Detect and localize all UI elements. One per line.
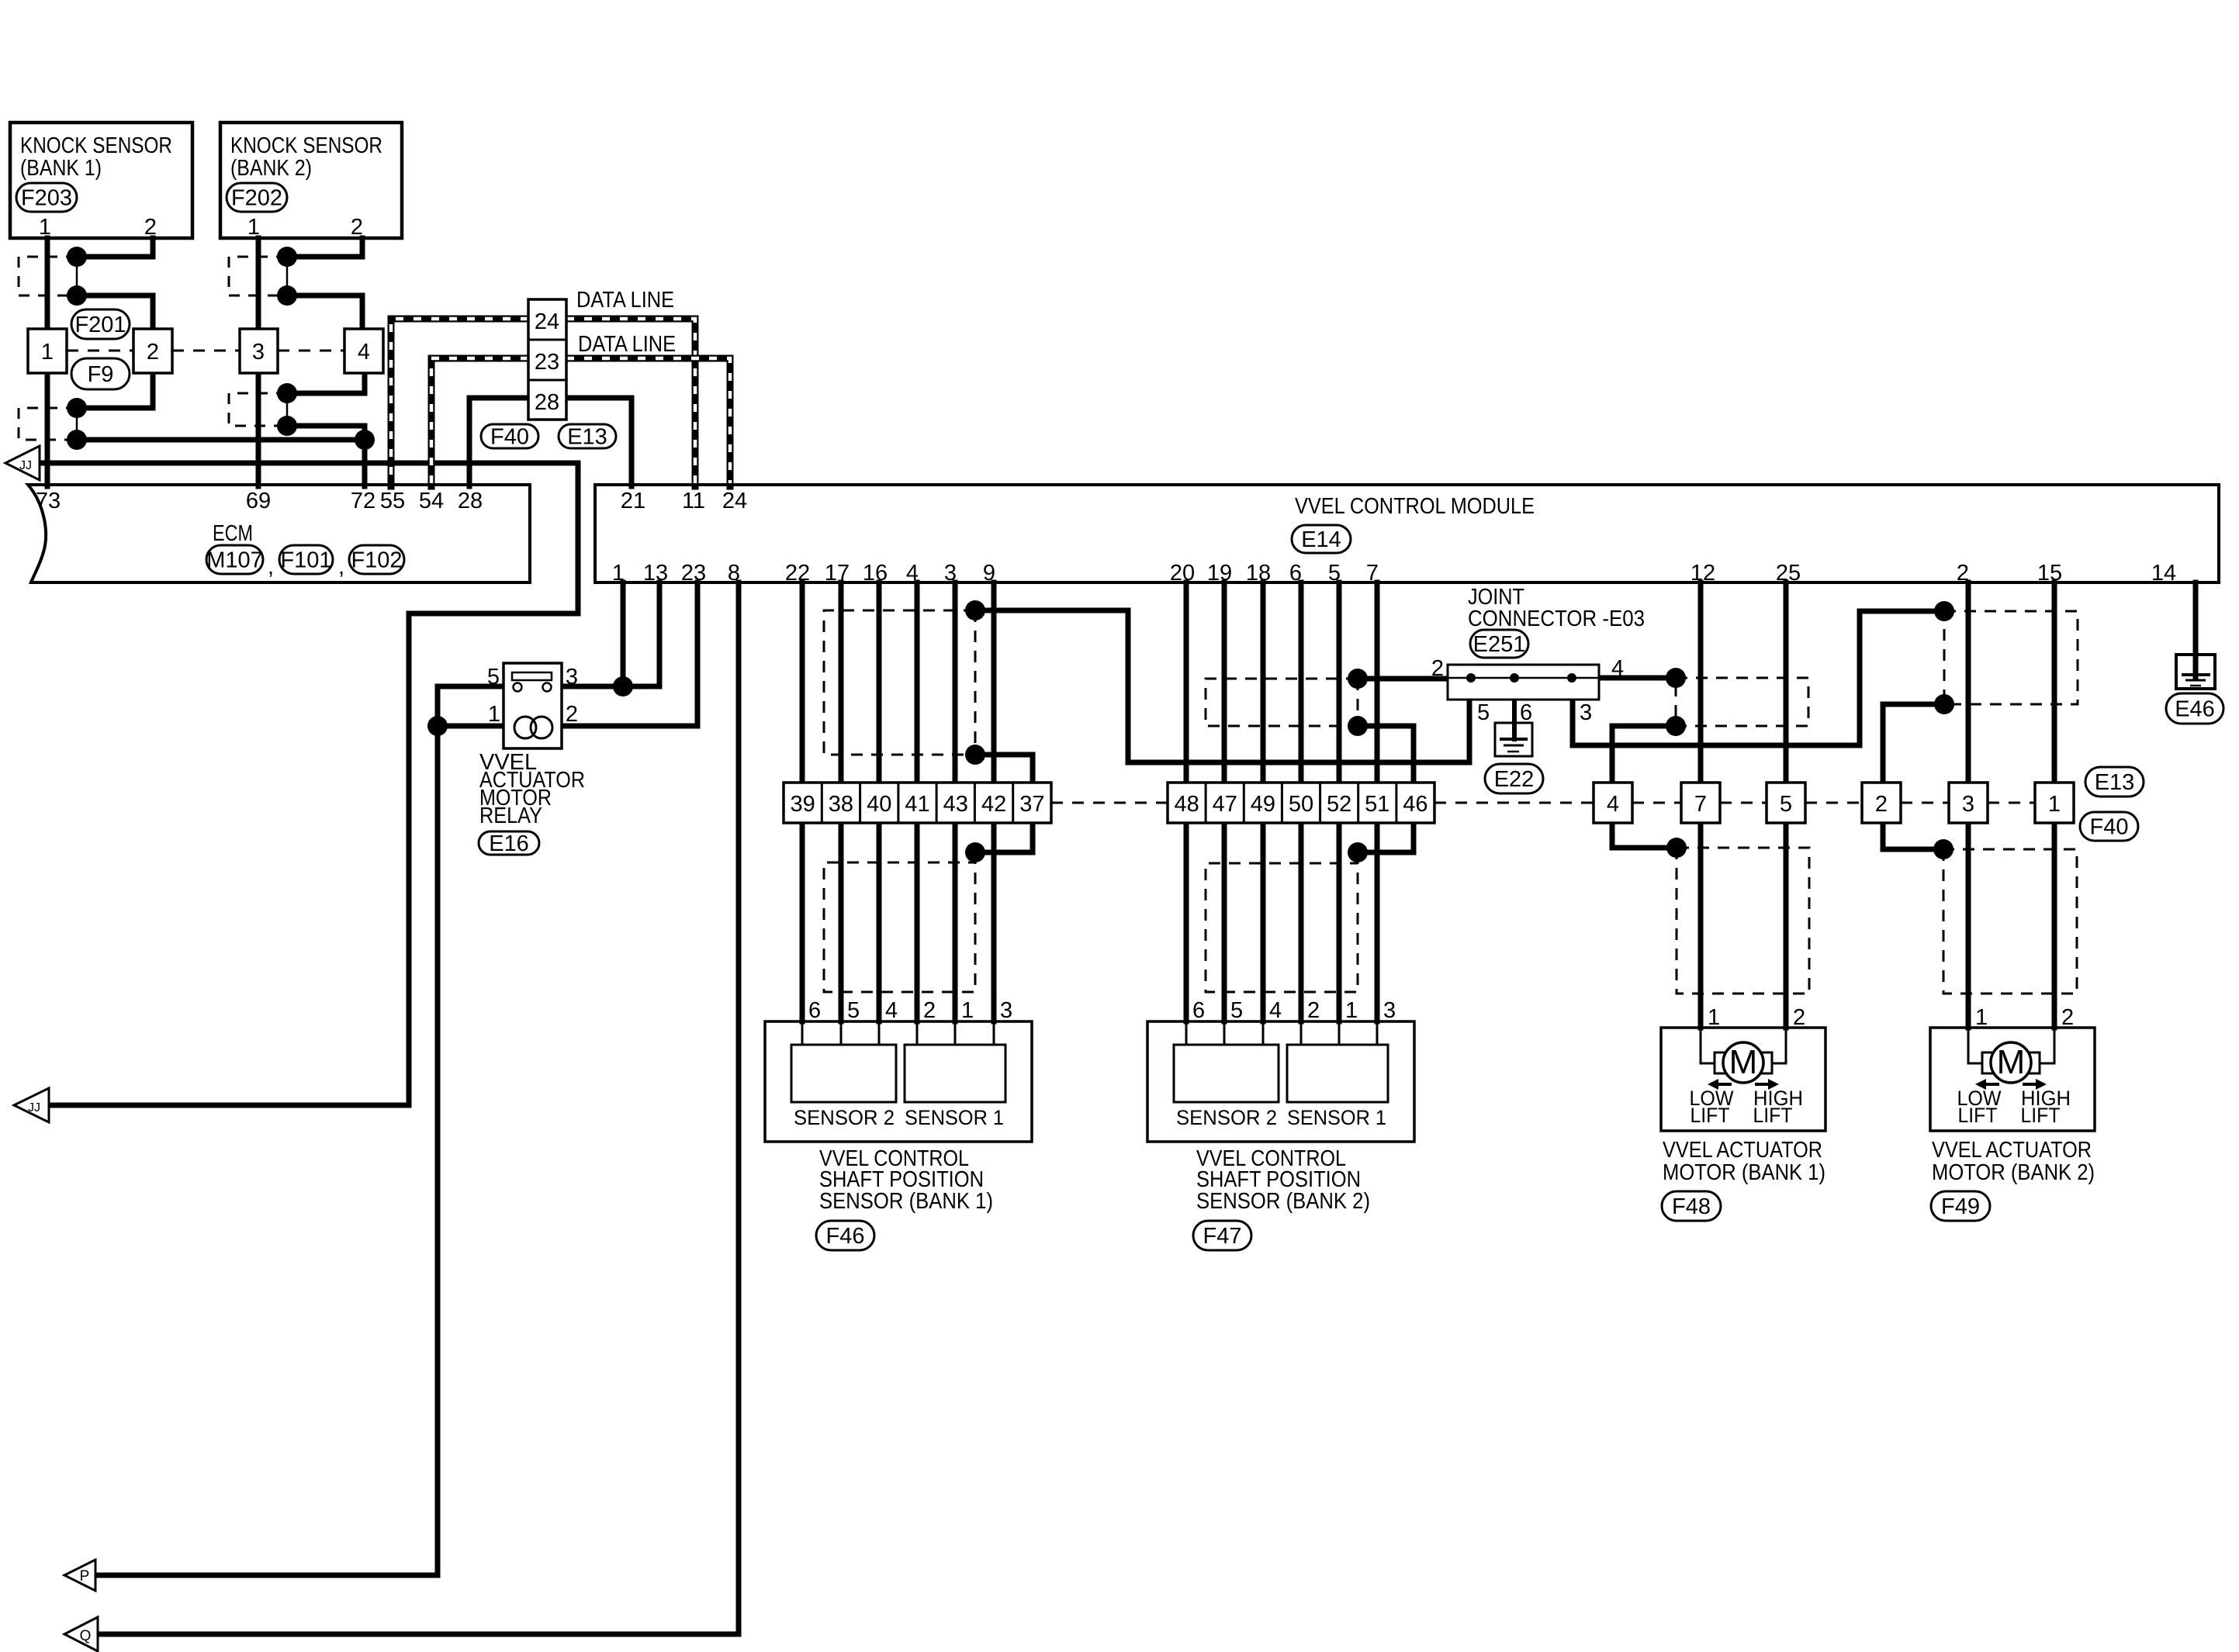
svg-text:F202: F202	[231, 186, 282, 211]
wire square row to sensor bank2 x=1677	[1299, 823, 1304, 1021]
svg-text:3: 3	[1962, 792, 1974, 817]
svg-text:F48: F48	[1672, 1194, 1711, 1219]
svg-text:46: 46	[1403, 792, 1427, 817]
wire module pin8 down to Q arrow	[98, 582, 739, 1634]
motor2 direction arrows	[1985, 1083, 1999, 1086]
svg-text:49: 49	[1251, 792, 1275, 817]
svg-text:6: 6	[1520, 700, 1532, 725]
svg-text:69: 69	[246, 489, 271, 513]
wire module to square row bank1 x=1133	[877, 582, 882, 783]
svg-text:3: 3	[944, 561, 957, 586]
joint connector E03 box	[1448, 665, 1599, 700]
shield dashed box bank1 upper	[824, 610, 975, 755]
shield link knock2 upper	[286, 257, 289, 295]
shield dashed box bank1 lower	[824, 852, 975, 992]
shield dashed box joint pin4	[1676, 678, 1808, 726]
wire module to square row bank1 x=1084	[839, 582, 844, 783]
svg-text:,: ,	[268, 555, 274, 579]
shield dot C	[965, 842, 985, 862]
oval E22	[1485, 764, 1543, 793]
junction dot relay3/module1	[613, 676, 633, 696]
svg-text:,: ,	[338, 555, 344, 579]
wire relay pin5	[438, 686, 514, 726]
svg-text:2: 2	[1957, 561, 1969, 586]
sensor 1 inner box bank1	[905, 1045, 1005, 1102]
wire module to square row bank2 x=1775	[1375, 582, 1380, 783]
data line patterned wire module 11	[566, 319, 695, 486]
wire square row to sensor bank2 x=1529	[1184, 823, 1189, 1021]
svg-text:F9: F9	[88, 362, 114, 387]
data line patterned wire ECM 54	[431, 358, 528, 486]
svg-text:17: 17	[825, 561, 850, 586]
shield dot	[277, 416, 297, 436]
svg-text:47: 47	[1213, 792, 1237, 817]
wire square2 to shield dot	[77, 373, 153, 408]
sensor 2 inner box bank1	[791, 1045, 896, 1102]
wire knock2 pin2 to square 4 with shield jog	[287, 238, 362, 329]
oval M107	[206, 545, 263, 574]
connector square 3	[240, 329, 278, 373]
JC bus dot pin3	[1567, 673, 1576, 683]
svg-text:9: 9	[983, 561, 995, 586]
right connector square 3	[1949, 783, 1988, 823]
svg-text:43: 43	[943, 792, 968, 817]
svg-text:KNOCK SENSOR: KNOCK SENSOR	[230, 133, 382, 158]
svg-text:3: 3	[1580, 700, 1592, 725]
relay switch contact symbol	[512, 672, 552, 680]
svg-text:E13: E13	[2095, 770, 2135, 795]
shield dashed box motor bank1	[1677, 848, 1809, 994]
wire square row to sensor bank1 x=1182	[915, 823, 920, 1021]
svg-text:1: 1	[961, 998, 974, 1023]
svg-text:2: 2	[144, 215, 157, 240]
svg-text:15: 15	[2037, 561, 2062, 586]
oval E14	[1292, 525, 1351, 553]
svg-text:14: 14	[2151, 561, 2176, 586]
off-page arrow P	[64, 1560, 95, 1591]
right connector square 7	[1681, 783, 1720, 823]
connector strip bank1	[784, 783, 1051, 823]
wire module to square row bank2 x=1726	[1337, 582, 1342, 783]
wire shield run to ECM72 node	[77, 437, 365, 443]
svg-text:12: 12	[1690, 561, 1715, 586]
wire relay node down to P arrow	[95, 726, 438, 1575]
svg-text:5: 5	[1477, 700, 1490, 725]
junction node ECM72	[355, 430, 375, 450]
sensor bank1 outer box	[765, 1021, 1032, 1142]
oval F201	[71, 309, 130, 339]
motor1 direction arrows	[1718, 1083, 1732, 1086]
svg-text:2: 2	[566, 702, 578, 727]
connector square 1	[28, 329, 67, 373]
off-page arrow Q	[64, 1617, 98, 1651]
svg-text:16: 16	[863, 561, 888, 586]
junction dot relay1 node	[427, 716, 448, 736]
wire node to ECM 72	[362, 440, 368, 486]
svg-text:11: 11	[682, 489, 705, 513]
dashed connector row y=1035	[1051, 802, 2035, 804]
connector square 2	[133, 329, 172, 373]
svg-text:E22: E22	[1494, 767, 1535, 792]
right connector square 5	[1767, 783, 1805, 823]
svg-text:5: 5	[487, 665, 500, 689]
shield dot	[67, 247, 87, 267]
svg-text:F40: F40	[490, 425, 529, 450]
svg-text:20: 20	[1170, 561, 1195, 586]
shield dot	[277, 247, 297, 267]
wire module to square row bank1 x=1182	[915, 582, 920, 783]
svg-text:LIFT: LIFT	[1690, 1104, 1730, 1127]
wire right shield to right square 2	[1883, 704, 1944, 783]
wire module to square row bank1 x=1281	[991, 582, 997, 783]
wire knock1 pin1 to ECM 73	[45, 238, 50, 486]
shield dot	[67, 285, 87, 306]
wire module to square row bank1 x=1034	[800, 582, 805, 783]
oval F101	[279, 545, 333, 574]
shield dashed box bank2 upper	[1206, 679, 1358, 726]
svg-text:SENSOR 1: SENSOR 1	[905, 1106, 1004, 1129]
wire square row to sensor bank1 x=1133	[877, 823, 882, 1021]
svg-text:1: 1	[39, 215, 51, 240]
svg-text:E251: E251	[1473, 632, 1526, 657]
wire module to square row bank1 x=1231	[953, 582, 958, 783]
wire shield B2 to square 46	[1358, 726, 1414, 783]
shield link knock1 upper	[76, 257, 78, 295]
wire module pin12 to motor1 pin1	[1698, 582, 1704, 1028]
svg-text:40: 40	[867, 792, 891, 817]
wire square4 to shield dot	[287, 373, 365, 393]
oval F47	[1193, 1221, 1251, 1250]
svg-text:(BANK 1): (BANK 1)	[20, 156, 102, 181]
svg-text:F203: F203	[21, 186, 72, 211]
svg-text:SENSOR (BANK 2): SENSOR (BANK 2)	[1196, 1189, 1370, 1214]
oval E251	[1470, 630, 1528, 658]
svg-text:6: 6	[1192, 998, 1205, 1023]
svg-text:19: 19	[1207, 561, 1232, 586]
svg-text:VVEL CONTROL MODULE: VVEL CONTROL MODULE	[1295, 494, 1535, 519]
wire square row to sensor bank1 x=1281	[991, 823, 997, 1021]
svg-text:F101: F101	[280, 548, 331, 573]
svg-text:13: 13	[643, 561, 668, 586]
wire shield A to joint connector pin5	[975, 610, 1469, 762]
svg-text:39: 39	[790, 792, 815, 817]
oval F203	[16, 183, 77, 212]
shield dot	[277, 285, 297, 306]
svg-text:E14: E14	[1301, 527, 1341, 552]
svg-text:21: 21	[621, 489, 645, 513]
motor2 M symbol	[1968, 1028, 1991, 1063]
svg-text:1: 1	[2048, 792, 2061, 817]
svg-text:1: 1	[1708, 1005, 1720, 1030]
svg-text:MOTOR (BANK 1): MOTOR (BANK 1)	[1663, 1160, 1825, 1185]
svg-text:28: 28	[535, 390, 559, 415]
svg-text:F102: F102	[351, 548, 402, 573]
svg-text:SENSOR 2: SENSOR 2	[1176, 1106, 1277, 1129]
svg-text:4: 4	[358, 340, 370, 365]
svg-text:JJ: JJ	[19, 459, 32, 472]
sensor bank2 outer box	[1147, 1021, 1414, 1142]
svg-text:37: 37	[1019, 792, 1044, 817]
shield dot motor2	[1933, 839, 1954, 859]
oval E46	[2166, 693, 2223, 724]
connector strip 24/23/28	[528, 299, 566, 420]
wire module to square row bank2 x=1529	[1184, 582, 1189, 783]
svg-text:41: 41	[905, 792, 929, 817]
shield dot	[277, 383, 297, 403]
data line patterned wire ECM 55	[391, 319, 528, 486]
oval E13 right	[2085, 767, 2144, 797]
oval F48	[1662, 1191, 1721, 1221]
svg-text:4: 4	[1607, 792, 1619, 817]
off-page arrow JJ lower	[14, 1088, 49, 1122]
wire square row to sensor bank2 x=1726	[1337, 823, 1342, 1021]
svg-text:51: 51	[1365, 792, 1389, 817]
wire square row to sensor bank2 x=1628	[1261, 823, 1266, 1021]
oval E13 top	[559, 424, 616, 450]
svg-text:VVEL ACTUATOR: VVEL ACTUATOR	[1932, 1138, 2092, 1163]
wire JC pin6 to ground E22	[1512, 700, 1517, 739]
wire square row to sensor bank2 x=1578	[1222, 823, 1227, 1021]
right connector square 4	[1594, 783, 1632, 823]
wire module pin15 to motor2 pin2	[2052, 582, 2057, 1028]
svg-text:42: 42	[981, 792, 1006, 817]
svg-text:2: 2	[1307, 998, 1320, 1023]
wire square 46 to shield dot C2	[1358, 823, 1414, 852]
JC bus dot pin6	[1510, 673, 1519, 683]
svg-text:LIFT: LIFT	[1958, 1104, 1998, 1127]
svg-text:38: 38	[829, 792, 853, 817]
oval F9	[71, 358, 130, 389]
svg-text:2: 2	[351, 215, 363, 240]
svg-text:M: M	[1729, 1043, 1758, 1081]
svg-text:RELAY: RELAY	[479, 804, 542, 828]
shield dot B	[965, 745, 985, 765]
svg-text:5: 5	[847, 998, 860, 1023]
svg-text:55: 55	[380, 489, 405, 513]
shield dashed box knock1 lower	[19, 408, 77, 440]
svg-text:E46: E46	[2175, 697, 2215, 722]
svg-text:22: 22	[785, 561, 810, 586]
svg-text:2: 2	[1431, 656, 1444, 681]
svg-text:MOTOR (BANK 2): MOTOR (BANK 2)	[1932, 1160, 2095, 1185]
data line patterned wire module 24	[566, 358, 730, 486]
wire module to square row bank2 x=1628	[1261, 582, 1266, 783]
wire box28 to module 21	[566, 398, 632, 486]
wire module to square row bank2 x=1677	[1299, 582, 1304, 783]
svg-text:DATA LINE: DATA LINE	[576, 288, 674, 313]
JC bus dot pin5	[1466, 673, 1476, 683]
connector strip bank2	[1168, 783, 1434, 823]
svg-text:28: 28	[458, 489, 483, 513]
svg-text:1: 1	[247, 215, 260, 240]
VVEL actuator motor relay box	[504, 663, 562, 748]
shield dashed box right pair	[1944, 611, 2078, 704]
shield dot B2	[1348, 716, 1368, 736]
shield dashed box knock2 upper	[229, 257, 287, 295]
svg-text:4: 4	[1611, 656, 1624, 681]
svg-text:F201: F201	[74, 313, 126, 337]
wire module pin1 down	[621, 582, 626, 686]
svg-text:SENSOR 1: SENSOR 1	[1287, 1106, 1386, 1129]
svg-text:E16: E16	[489, 831, 529, 856]
svg-text:4: 4	[906, 561, 919, 586]
wire shield A2 to joint connector pin2	[1358, 676, 1448, 682]
shield dot C2	[1348, 842, 1368, 862]
shield link knock2 lower	[286, 393, 289, 426]
svg-text:JJ: JJ	[28, 1101, 40, 1115]
svg-text:2: 2	[1793, 1005, 1805, 1030]
shield dashed box bank2 lower	[1206, 852, 1358, 992]
svg-text:6: 6	[808, 998, 821, 1023]
svg-text:4: 4	[885, 998, 898, 1023]
VVEL actuator motor bank2 box	[1930, 1028, 2095, 1131]
connector square 4	[344, 329, 383, 373]
dashed connector link row F201/F9	[67, 350, 344, 352]
shield dot A2	[1348, 669, 1368, 689]
wire module pin25 to motor1 pin2	[1784, 582, 1789, 1028]
svg-text:LIFT: LIFT	[1753, 1104, 1793, 1127]
relay coil symbol	[514, 717, 536, 738]
VVEL control module box	[595, 485, 2219, 582]
svg-text:1: 1	[1975, 1005, 1988, 1030]
svg-text:5: 5	[1780, 792, 1792, 817]
right connector square 1	[2035, 783, 2074, 823]
oval F46	[816, 1221, 874, 1250]
svg-text:DATA LINE: DATA LINE	[578, 332, 676, 357]
wire square row to sensor bank2 x=1775	[1375, 823, 1380, 1021]
svg-text:KNOCK SENSOR: KNOCK SENSOR	[20, 133, 172, 158]
shield dot D	[1666, 668, 1686, 688]
shield dot	[67, 430, 87, 450]
svg-text:P: P	[80, 1568, 90, 1585]
svg-text:2: 2	[2061, 1005, 2074, 1030]
oval F202	[227, 183, 287, 212]
svg-text:1: 1	[41, 340, 54, 365]
wire right square2 to motor2 shield dot	[1883, 823, 1943, 849]
svg-text:24: 24	[535, 309, 559, 334]
oval F49	[1931, 1191, 1990, 1221]
wire JC pin3 to right shield dot	[1573, 611, 1944, 745]
shield dot	[67, 398, 87, 418]
svg-text:F47: F47	[1203, 1224, 1242, 1249]
svg-text:SENSOR (BANK 1): SENSOR (BANK 1)	[819, 1189, 993, 1214]
shield dot right lower	[1934, 694, 1954, 714]
VVEL actuator motor bank1 box	[1661, 1028, 1825, 1131]
wire module pin14 to ground E46	[2193, 582, 2199, 676]
wire box28 to ECM 28	[469, 398, 528, 486]
svg-text:8: 8	[728, 561, 740, 586]
wire shield E to right square 4	[1612, 726, 1676, 783]
svg-text:CONNECTOR -E03: CONNECTOR -E03	[1468, 607, 1645, 631]
svg-text:1: 1	[488, 702, 500, 727]
svg-text:73: 73	[36, 489, 61, 513]
wire shield to ECM72 node	[287, 426, 365, 440]
svg-text:25: 25	[1776, 561, 1801, 586]
ground symbol E22	[1495, 723, 1532, 756]
svg-text:M107: M107	[206, 548, 263, 573]
off-page arrow JJ upper	[5, 446, 40, 480]
svg-text:E13: E13	[567, 425, 607, 450]
svg-text:24: 24	[722, 489, 747, 513]
svg-text:3: 3	[566, 665, 578, 689]
motor1 M symbol	[1701, 1028, 1723, 1063]
wire module pin13 to relay pin3	[562, 582, 659, 686]
oval F102	[349, 545, 404, 574]
shield dot A	[965, 600, 985, 620]
wire square row to sensor bank1 x=1084	[839, 823, 844, 1021]
svg-text:5: 5	[1230, 998, 1243, 1023]
wire module pin2 to motor2 pin1	[1966, 582, 1971, 1028]
wire shield B to square 37	[975, 755, 1033, 783]
svg-text:23: 23	[535, 350, 559, 375]
sensor 2 inner box bank2	[1174, 1045, 1279, 1102]
shield dot motor1	[1666, 838, 1687, 858]
svg-text:52: 52	[1327, 792, 1351, 817]
svg-text:VVEL ACTUATOR: VVEL ACTUATOR	[1663, 1138, 1822, 1163]
svg-text:5: 5	[1328, 561, 1341, 586]
wire square 37 to shield dot C	[975, 823, 1033, 852]
svg-text:(BANK 2): (BANK 2)	[230, 156, 312, 181]
svg-text:M: M	[1997, 1043, 2026, 1081]
wire right square4 to motor1 shield dot	[1612, 823, 1677, 848]
shield dashed box knock1 upper	[19, 257, 77, 295]
svg-text:3: 3	[252, 340, 265, 365]
svg-text:F49: F49	[1941, 1194, 1980, 1219]
oval F40 right	[2080, 812, 2138, 841]
wire relay pin1	[438, 724, 504, 729]
svg-text:6: 6	[1289, 561, 1302, 586]
shield link knock1 lower	[76, 408, 78, 440]
wire square row to sensor bank1 x=1231	[953, 823, 958, 1021]
shield dashed box motor bank2	[1943, 849, 2077, 994]
wire module pin23 to relay pin2	[562, 582, 697, 726]
svg-text:48: 48	[1174, 792, 1199, 817]
right connector square 2	[1862, 783, 1901, 823]
svg-text:54: 54	[419, 489, 444, 513]
svg-text:3: 3	[1383, 998, 1396, 1023]
wire module to square row bank2 x=1578	[1222, 582, 1227, 783]
svg-text:SENSOR 2: SENSOR 2	[794, 1106, 895, 1129]
svg-text:1: 1	[1345, 998, 1358, 1023]
svg-text:2: 2	[923, 998, 936, 1023]
svg-text:23: 23	[681, 561, 706, 586]
ground symbol E46	[2176, 655, 2215, 689]
svg-text:18: 18	[1246, 561, 1271, 586]
knock sensor bank2 box F202	[220, 123, 402, 238]
svg-text:F46: F46	[826, 1224, 865, 1249]
svg-text:LIFT: LIFT	[2021, 1104, 2061, 1127]
svg-text:Q: Q	[80, 1628, 92, 1644]
svg-text:2: 2	[147, 340, 159, 365]
oval F40 top	[481, 424, 538, 450]
svg-text:7: 7	[1694, 792, 1707, 817]
wire JC pin4 to shield dot D	[1599, 676, 1676, 681]
svg-text:1: 1	[612, 561, 625, 586]
wire JJ run	[40, 463, 578, 1105]
shield dot right upper	[1934, 601, 1954, 621]
svg-text:4: 4	[1269, 998, 1282, 1023]
shield dot E	[1666, 716, 1686, 736]
wire knock1 pin2 to square 2 with shield jog	[77, 238, 153, 329]
svg-text:72: 72	[351, 489, 375, 513]
svg-text:F40: F40	[2090, 815, 2129, 840]
ECM box	[28, 485, 530, 582]
svg-text:3: 3	[1000, 998, 1012, 1023]
svg-text:ECM: ECM	[213, 521, 253, 546]
wire knock2 pin1 to ECM 69	[256, 238, 261, 486]
svg-text:7: 7	[1366, 561, 1379, 586]
svg-text:50: 50	[1289, 792, 1313, 817]
